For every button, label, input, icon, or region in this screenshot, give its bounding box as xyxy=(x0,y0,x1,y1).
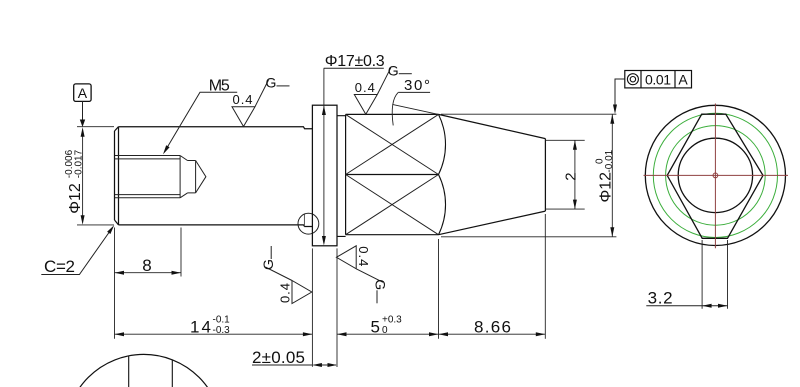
slot lines xyxy=(129,356,173,387)
svg-text:A: A xyxy=(78,85,88,101)
svg-text:8.66: 8.66 xyxy=(474,317,511,336)
roughness on flange right face xyxy=(336,246,388,304)
flange phi17 xyxy=(312,105,337,246)
dim 2 +-0.05 flange width xyxy=(252,248,337,367)
svg-text:30°: 30° xyxy=(404,77,430,94)
inner circle xyxy=(678,138,752,212)
svg-text:-0.01: -0.01 xyxy=(604,149,615,172)
datum A symbol xyxy=(74,84,91,127)
dim 14 -0.1 -0.3 xyxy=(115,315,313,337)
taper back extension line for 30deg xyxy=(392,104,438,114)
label C=2 xyxy=(41,224,116,276)
dim 3.2 xyxy=(646,240,728,309)
red centerline vertical xyxy=(714,104,716,249)
dim phi12 -0.006 -0.017 xyxy=(64,127,114,225)
feature control frame 0.01 A xyxy=(613,71,692,115)
green circle inner xyxy=(666,126,766,226)
svg-text:0.01: 0.01 xyxy=(645,71,671,87)
svg-text:-0.3: -0.3 xyxy=(213,325,231,336)
svg-text:Φ17±0.3: Φ17±0.3 xyxy=(325,53,385,70)
roughness on shaft top xyxy=(232,75,290,127)
partial circle bottom left xyxy=(65,354,222,387)
svg-text:5: 5 xyxy=(371,317,380,336)
roughness on flange left face xyxy=(260,246,312,304)
dim 2 end face xyxy=(545,140,584,209)
hexagon xyxy=(667,114,763,238)
knurl diagonals xyxy=(346,114,439,234)
svg-text:2±0.05: 2±0.05 xyxy=(252,348,305,367)
svg-text:2: 2 xyxy=(562,172,579,180)
svg-text:Φ12: Φ12 xyxy=(598,172,615,203)
taper cone xyxy=(439,114,546,234)
dim 8 xyxy=(115,228,182,339)
neck lines xyxy=(337,116,346,237)
red centerline horizontal xyxy=(644,174,789,176)
roughness on knurl top xyxy=(354,62,412,114)
undercut detail circle xyxy=(298,213,319,234)
green circle outer xyxy=(653,113,777,237)
svg-text:C=2: C=2 xyxy=(44,257,75,276)
undercut groove line xyxy=(303,214,305,227)
red center mark xyxy=(713,173,718,178)
dim 30deg xyxy=(392,77,430,125)
dim 5 +0.3/0 xyxy=(337,239,439,339)
svg-text:-0.017: -0.017 xyxy=(74,149,85,178)
dim phi12 0 -0.01 xyxy=(441,114,616,237)
shaft left end face xyxy=(115,127,119,225)
M5 threaded stud xyxy=(115,156,206,198)
knurl box xyxy=(346,114,439,234)
svg-text:8: 8 xyxy=(142,256,151,275)
svg-text:Φ12: Φ12 xyxy=(67,183,84,214)
dim phi17 +-0.3 xyxy=(322,53,385,246)
shaft top edge xyxy=(119,127,313,129)
svg-text:0: 0 xyxy=(382,325,388,336)
knurl right arcs xyxy=(439,114,446,234)
svg-text:3.2: 3.2 xyxy=(648,289,673,308)
end view outer circle xyxy=(645,105,785,245)
label M5 xyxy=(161,78,237,156)
shaft bottom edge xyxy=(119,225,313,227)
svg-text:A: A xyxy=(678,71,688,87)
dim 8.66 xyxy=(439,214,546,339)
